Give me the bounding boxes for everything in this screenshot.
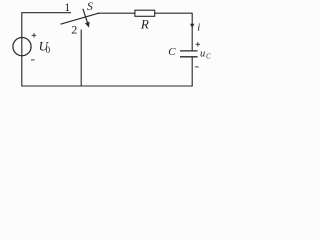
svg-text:1: 1 [64,0,70,14]
wire bottom rail [21,85,192,87]
current arrowhead i [190,24,194,29]
wire pivot to resistor [98,12,135,14]
svg-text:0: 0 [46,45,51,55]
voltage source U0 [13,38,31,56]
wire contact 2 down [80,30,82,87]
switch S arm [61,13,100,24]
svg-text:C: C [206,53,211,61]
switch arrowhead [85,22,90,28]
svg-text:S: S [87,0,93,13]
svg-text:C: C [168,46,176,58]
plus sign of source [32,34,37,36]
svg-text:i: i [197,21,200,33]
resistor R body [135,10,155,16]
capacitor C top plate [180,50,198,52]
wire left vertical [21,13,23,87]
svg-text:u: u [200,48,205,59]
plus sign of capacitor [196,43,200,45]
wire right vertical upper [191,13,193,51]
minus sign of capacitor [195,66,199,68]
minus sign of source [31,59,35,61]
wire resistor to top-right corner [155,12,193,14]
wire right vertical lower [191,57,193,86]
switch throw arrow [83,9,88,23]
svg-text:2: 2 [71,23,77,37]
wire top to contact 1 [21,12,71,14]
capacitor C bottom plate [180,56,198,58]
svg-text:R: R [140,17,149,32]
